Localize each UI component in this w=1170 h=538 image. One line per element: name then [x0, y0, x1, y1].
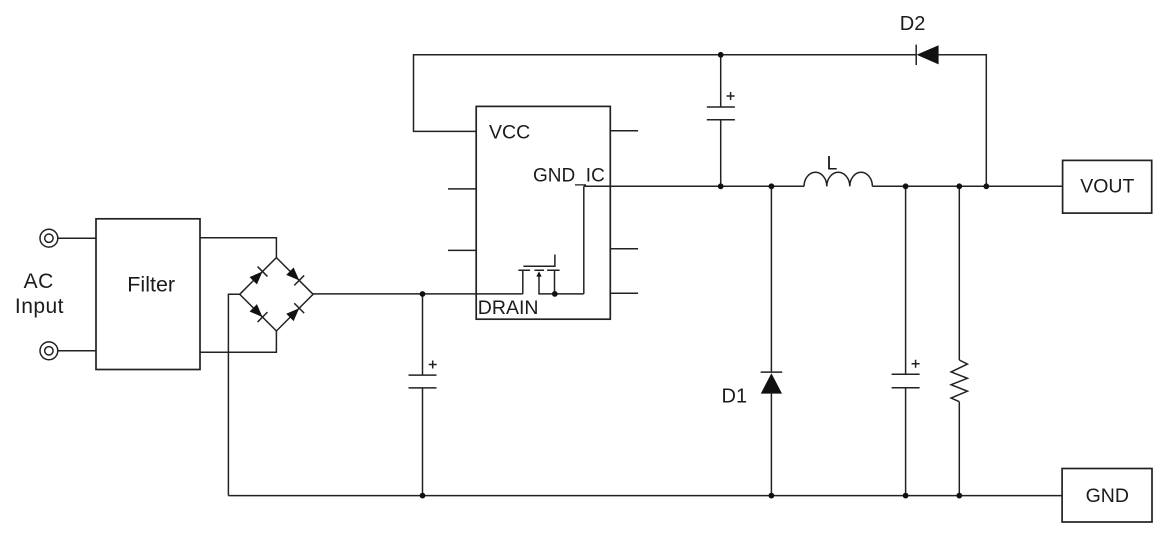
- IC box U1: [476, 106, 610, 319]
- svg-text:L: L: [827, 153, 838, 175]
- junction dot R1 top: [956, 183, 962, 189]
- svg-text:D1: D1: [722, 385, 748, 407]
- junction dot D1 top: [769, 183, 775, 189]
- diode D2: [916, 45, 938, 65]
- wire Filter to bridge top vertex: [200, 238, 276, 258]
- capacitor C3 output electrolytic: [892, 186, 920, 495]
- resistor R1: [951, 186, 967, 495]
- bridge diode top-right: [285, 266, 304, 285]
- junction dot C1 bottom: [420, 493, 426, 499]
- bridge rectifier diamond: [240, 258, 313, 331]
- wire bridge left vertex down to ground rail: [228, 294, 239, 495]
- IC pin stub left 3: [448, 249, 476, 251]
- MOSFET Q1 inside IC: [518, 186, 583, 294]
- junction dot VCC cap top: [718, 52, 724, 58]
- IC pin stub right 4: [610, 292, 638, 294]
- svg-text:AC: AC: [24, 270, 54, 293]
- svg-text:Input: Input: [15, 295, 64, 318]
- svg-text:Filter: Filter: [127, 273, 175, 297]
- svg-text:DRAIN: DRAIN: [478, 297, 539, 319]
- junction dot VCC cap bottom: [718, 183, 724, 189]
- junction dot D1 bottom: [769, 493, 775, 499]
- svg-text:D2: D2: [900, 13, 926, 35]
- junction dot C3 bottom: [903, 493, 909, 499]
- svg-text:GND: GND: [1086, 485, 1129, 507]
- AC input terminal bottom: [40, 342, 58, 360]
- junction dot D2 bottom: [983, 183, 989, 189]
- wire Filter to bridge bottom vertex: [200, 331, 276, 353]
- IC pin stub right 3: [610, 248, 638, 250]
- IC pin stub right 1: [610, 130, 638, 132]
- bridge diode bottom-right: [285, 303, 304, 322]
- inductor L: [804, 172, 872, 186]
- capacitor C1 input electrolytic: [409, 294, 437, 496]
- bridge diode bottom-left: [248, 303, 267, 322]
- svg-text:GND_IC: GND_IC: [533, 165, 605, 186]
- output rail after inductor: [872, 185, 1062, 187]
- VOUT box: [1063, 160, 1152, 213]
- bridge diode top-left: [248, 267, 267, 286]
- GND box: [1062, 469, 1152, 523]
- svg-text:VOUT: VOUT: [1080, 175, 1134, 197]
- Filter box: [96, 219, 200, 370]
- junction dot MOSFET source: [552, 291, 558, 297]
- svg-text:VCC: VCC: [489, 122, 530, 144]
- wire top terminal to Filter: [58, 237, 96, 239]
- wire bottom terminal to Filter: [58, 350, 96, 352]
- junction dot C1 top: [420, 291, 426, 297]
- capacitor C2 VCC electrolytic: [707, 55, 735, 187]
- AC input terminal top: [40, 229, 58, 247]
- GND_IC output rail: [584, 185, 804, 187]
- wire top rail right section D2 to VOUT node: [939, 55, 987, 187]
- junction dot C3 top: [903, 183, 909, 189]
- wire VCC feedback (top rail left section): [414, 55, 917, 132]
- ground rail wire: [228, 495, 1062, 497]
- diode D1: [761, 186, 783, 495]
- junction dot R1 bottom: [956, 493, 962, 499]
- wire bridge right vertex to IC DRAIN: [313, 293, 523, 295]
- IC pin stub left 2: [448, 188, 476, 190]
